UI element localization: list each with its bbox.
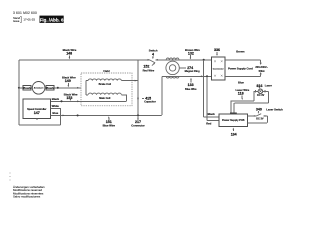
wire: bottom return to blue wire bbox=[20, 115, 61, 125]
label 133 Blue Wire bbox=[185, 78, 197, 91]
label 340 Laser Switch bbox=[256, 107, 283, 113]
wire: red wire vertical with capacitor 415 bbox=[137, 60, 139, 116]
svg-text:340: 340 bbox=[256, 108, 262, 112]
main coil winding bbox=[81, 93, 127, 101]
svg-text:Power Supply Cord: Power Supply Cord bbox=[228, 66, 253, 70]
svg-text:Power Supply PCB: Power Supply PCB bbox=[222, 119, 245, 122]
laser 816 symbol bbox=[256, 89, 265, 94]
label mains voltage bbox=[255, 65, 268, 73]
svg-text:Laser: Laser bbox=[265, 84, 272, 88]
label 816 Laser bbox=[257, 84, 272, 89]
svg-text:Brush: Brush bbox=[23, 87, 31, 90]
svg-text:Fig. /Abb. 6: Fig. /Abb. 6 bbox=[40, 17, 64, 22]
wire: power cord blue bbox=[225, 74, 261, 76]
fold marks bbox=[9, 173, 11, 180]
node: 217 connector junction bbox=[137, 114, 139, 116]
wire: field left vertical bbox=[85, 81, 87, 95]
wire: bottom blue/neutral wire to connector bbox=[162, 75, 212, 77]
footer notices bbox=[13, 185, 45, 198]
svg-text:Laser Switch: Laser Switch bbox=[266, 107, 283, 111]
magnet ring 274 bbox=[166, 58, 179, 78]
label 336 bbox=[214, 48, 220, 56]
label 274 Magnet Ring bbox=[180, 66, 200, 73]
svg-text:151: 151 bbox=[106, 120, 112, 124]
label 415 Capacitor bbox=[142, 96, 156, 103]
label Laser Wire 118 bbox=[236, 88, 250, 100]
label Switch 4 bbox=[149, 48, 158, 59]
node: red tap on bottom wire bbox=[206, 75, 208, 77]
svg-text:220-240V~: 220-240V~ bbox=[255, 65, 268, 69]
svg-text:153: 153 bbox=[66, 96, 72, 100]
svg-text:132: 132 bbox=[188, 52, 194, 56]
svg-text:Connector: Connector bbox=[213, 67, 224, 70]
wire: black wire 153 from speed controller to field bbox=[51, 100, 82, 102]
label Black Wire 148 bbox=[63, 48, 77, 59]
connector 336 box bbox=[212, 57, 226, 80]
wire: laser return bbox=[234, 91, 268, 112]
svg-text:Black: Black bbox=[52, 97, 60, 101]
label Black Wire 149 bbox=[62, 76, 76, 88]
svg-text:Connector: Connector bbox=[131, 124, 144, 128]
svg-text:50Hz: 50Hz bbox=[259, 69, 266, 73]
svg-text:Brush: Brush bbox=[46, 87, 54, 90]
svg-text:Field: Field bbox=[103, 69, 110, 73]
power supply pcb terminal block bbox=[230, 113, 237, 116]
svg-text:Red: Red bbox=[206, 122, 211, 126]
svg-text:148: 148 bbox=[66, 52, 72, 56]
svg-text:Blue Wire: Blue Wire bbox=[103, 124, 116, 128]
arrow brake coil to red line bbox=[135, 80, 137, 82]
wire: top black wire (line side) bbox=[19, 59, 212, 61]
brush (right) bbox=[46, 86, 54, 91]
power supply pcb 134 bbox=[219, 114, 248, 127]
svg-text:Blue: Blue bbox=[238, 80, 244, 84]
node on brush wire bbox=[57, 87, 59, 89]
speed controller box bbox=[23, 99, 51, 120]
brush (left) bbox=[23, 86, 31, 91]
svg-text:Main Coil: Main Coil bbox=[99, 97, 110, 100]
svg-text:Black: Black bbox=[208, 112, 216, 116]
node: junction of brush wire on left rail bbox=[18, 87, 20, 89]
svg-text:Capacitor: Capacitor bbox=[144, 100, 156, 103]
svg-text:147: 147 bbox=[34, 111, 40, 115]
figure label box bbox=[40, 16, 64, 23]
svg-text:Red Wire: Red Wire bbox=[143, 68, 155, 72]
wire: black wire to power supply pcb bbox=[204, 60, 219, 117]
svg-text:118: 118 bbox=[238, 92, 244, 96]
label 134 bbox=[231, 128, 237, 137]
svg-text:17-01-25: 17-01-25 bbox=[23, 18, 35, 22]
svg-text:Salvo modificaciones: Salvo modificaciones bbox=[13, 194, 41, 198]
svg-text:152: 152 bbox=[143, 65, 149, 69]
connector arrow into field box bbox=[77, 87, 79, 89]
svg-text:Magnet Ring: Magnet Ring bbox=[185, 70, 200, 73]
field dashed box bbox=[81, 73, 132, 106]
issue date block bbox=[13, 16, 35, 23]
wire: red wire to power supply pcb bbox=[207, 76, 219, 120]
svg-text:Blue: Blue bbox=[52, 111, 58, 115]
wire: left vertical of housing loop bbox=[18, 60, 21, 125]
svg-text:Issue: Issue bbox=[13, 19, 20, 23]
label 217 Connector bbox=[131, 117, 144, 128]
svg-text:Brake Coil: Brake Coil bbox=[99, 83, 112, 86]
svg-text:Blue Wire: Blue Wire bbox=[185, 88, 197, 91]
wire: blue wire 151 bbox=[51, 76, 162, 115]
wire: brush row bbox=[19, 87, 81, 89]
switch 4 contact ticks and lever bbox=[148, 59, 158, 63]
svg-text:White: White bbox=[52, 104, 60, 108]
svg-text:217: 217 bbox=[135, 120, 141, 124]
svg-text:Armature: Armature bbox=[34, 87, 45, 90]
svg-text:DC 3V: DC 3V bbox=[257, 94, 265, 97]
armature M1 bbox=[32, 82, 45, 95]
label 152 Red Wire bbox=[143, 63, 156, 73]
wire: white wire bbox=[51, 108, 61, 115]
svg-text:149: 149 bbox=[65, 79, 71, 83]
laser switch contacts and lever bbox=[254, 114, 265, 117]
svg-text:DC 3V: DC 3V bbox=[256, 118, 264, 121]
capacitor 415 bbox=[137, 98, 139, 100]
label Black Wire 153 bbox=[64, 92, 78, 101]
laser switch 340 loop bbox=[248, 116, 268, 123]
svg-text:133: 133 bbox=[188, 83, 194, 87]
svg-text:134: 134 bbox=[231, 132, 237, 136]
node: black tap on top wire bbox=[203, 59, 205, 61]
label 151 Blue Wire bbox=[103, 116, 116, 127]
wire: laser wire 118 feed bbox=[231, 91, 256, 112]
brake coil winding bbox=[86, 79, 138, 86]
arrow on bottom wire bbox=[200, 75, 202, 77]
wire: power cord brown bbox=[225, 60, 261, 63]
svg-text:3 601 M02 600: 3 601 M02 600 bbox=[13, 11, 37, 15]
svg-text:336: 336 bbox=[214, 48, 220, 52]
label Brown Wire 132 bbox=[185, 48, 200, 59]
svg-text:Brown: Brown bbox=[236, 50, 245, 54]
